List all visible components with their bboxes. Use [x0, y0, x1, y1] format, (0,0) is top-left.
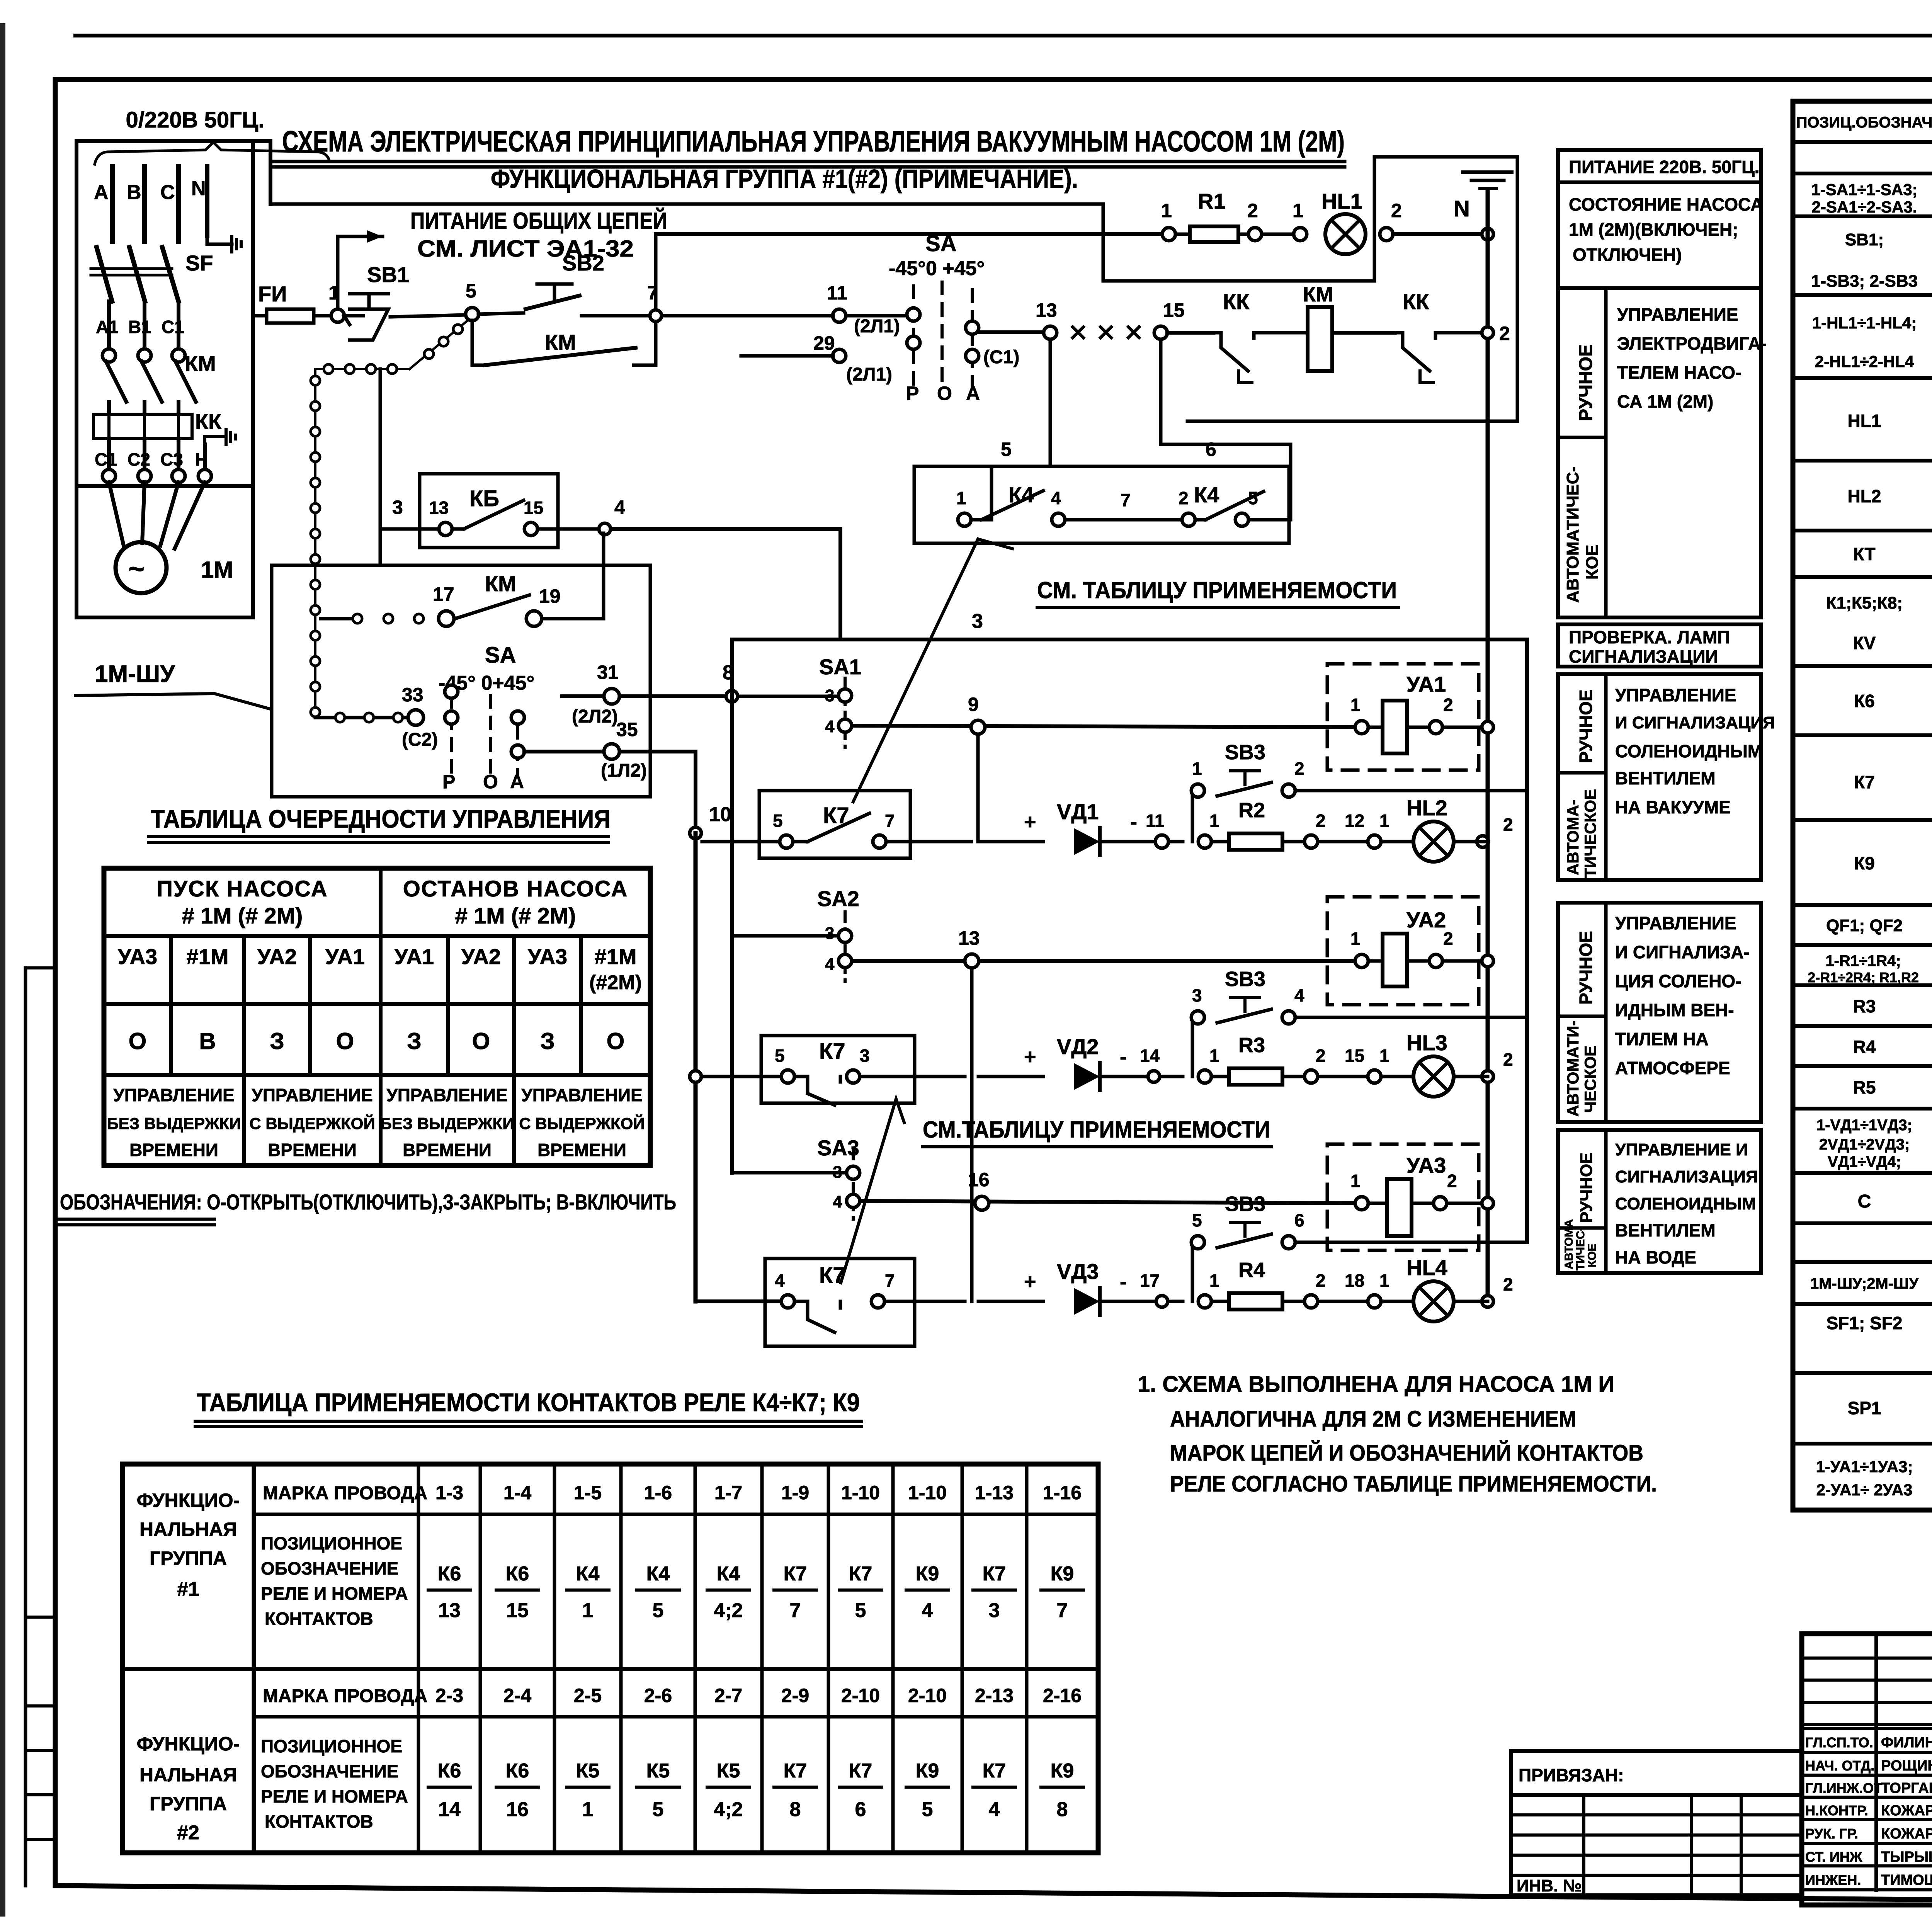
svg-text:ЧЕСКОЕ: ЧЕСКОЕ	[1581, 1046, 1599, 1113]
svg-text:1-VД1÷1VД3;: 1-VД1÷1VД3;	[1816, 1117, 1912, 1134]
svg-text:7: 7	[1057, 1599, 1068, 1622]
UA3 node 2	[1434, 1197, 1447, 1210]
svg-text:(2Л2): (2Л2)	[572, 706, 618, 727]
svg-text:4: 4	[1051, 488, 1061, 508]
svg-text:2: 2	[1294, 759, 1304, 779]
svg-text:# 1М (# 2М): # 1М (# 2М)	[455, 903, 576, 929]
svg-text:-: -	[1120, 1270, 1127, 1293]
svg-text:1М: 1М	[201, 557, 233, 583]
svg-text:#1: #1	[177, 1578, 199, 1600]
svg-text:З: З	[407, 1028, 422, 1054]
svg-text:5: 5	[653, 1599, 664, 1622]
svg-text:1-R1÷1R4;: 1-R1÷1R4;	[1825, 952, 1901, 969]
svg-text:SР1: SР1	[1848, 1398, 1881, 1418]
svg-text:МАРКА ПРОВОДА: МАРКА ПРОВОДА	[263, 1483, 427, 1503]
left bus wire 10	[694, 833, 698, 1301]
SA pole A contacts	[511, 711, 524, 724]
relay contact K7 box 1	[759, 791, 910, 858]
wire SB1 to node5	[390, 315, 466, 317]
svg-text:СИГНАЛИЗАЦИИ: СИГНАЛИЗАЦИИ	[1569, 646, 1718, 667]
svg-text:МАРКА ПРОВОДА: МАРКА ПРОВОДА	[263, 1686, 427, 1706]
H terminal ground	[205, 437, 226, 444]
node 1 of HL1	[1294, 228, 1307, 241]
svg-text:К6: К6	[506, 1563, 529, 1585]
svg-text:5: 5	[466, 280, 476, 302]
svg-text:-: -	[1130, 810, 1137, 833]
svg-text:БЕЗ ВЫДЕРЖКИ: БЕЗ ВЫДЕРЖКИ	[107, 1114, 241, 1133]
svg-text:N: N	[1454, 196, 1470, 221]
node 11 row1	[1155, 835, 1168, 848]
svg-text:18: 18	[1345, 1270, 1364, 1291]
annotation box lamp test	[1558, 624, 1761, 667]
svg-text:С2: С2	[128, 449, 150, 469]
svg-text:ТИЧЕС-: ТИЧЕС-	[1574, 1227, 1587, 1270]
wire 3 right bus	[1525, 639, 1529, 1242]
svg-text:7: 7	[885, 811, 895, 831]
svg-text:УПРАВЛЕНИЕ: УПРАВЛЕНИЕ	[1615, 913, 1736, 933]
svg-text:РУЧНОЕ: РУЧНОЕ	[1577, 1153, 1596, 1223]
svg-text:1-НL1÷1-НL4;: 1-НL1÷1-НL4;	[1812, 314, 1917, 332]
svg-text:К4: К4	[646, 1563, 670, 1585]
fuse FU	[267, 309, 314, 323]
svg-text:ВРЕМЕНИ: ВРЕМЕНИ	[537, 1140, 626, 1160]
chain wire to 33	[315, 716, 410, 719]
title block outer	[1802, 1634, 1932, 1905]
svg-text:МАРОК ЦЕПЕЙ И ОБОЗНАЧЕНИЙ К: МАРОК ЦЕПЕЙ И ОБОЗНАЧЕНИЙ КОНТАКТОВ	[1170, 1440, 1643, 1466]
svg-text:# 1М (# 2М): # 1М (# 2М)	[182, 903, 303, 929]
mech linkage horizontal chain	[315, 368, 410, 370]
svg-text:2-5: 2-5	[574, 1685, 602, 1706]
svg-text:R1: R1	[1198, 189, 1226, 213]
svg-text:О: О	[937, 383, 952, 404]
svg-text:2: 2	[1247, 200, 1258, 221]
svg-text:КМ: КМ	[185, 351, 216, 376]
svg-text:КОЖАРИНОВА: КОЖАРИНОВА	[1881, 1803, 1932, 1819]
svg-text:2-НL1÷2-НL4: 2-НL1÷2-НL4	[1815, 352, 1914, 371]
svg-text:С1: С1	[162, 317, 184, 337]
svg-text:7: 7	[1121, 490, 1131, 510]
svg-text:ОБОЗНАЧЕНИЕ: ОБОЗНАЧЕНИЕ	[261, 1761, 398, 1781]
svg-text:2: 2	[1499, 323, 1510, 344]
svg-text:ВЕНТИЛЕМ: ВЕНТИЛЕМ	[1615, 768, 1716, 788]
svg-text:ТЫРЫШКИН: ТЫРЫШКИН	[1881, 1849, 1932, 1865]
svg-text:14: 14	[438, 1798, 461, 1821]
svg-text:SА: SА	[485, 643, 516, 668]
wire node8 bus to SA3	[732, 1171, 847, 1175]
svg-text:ТАБЛИЦА ОЧЕРЕДНОСТИ УПРАВЛЕН: ТАБЛИЦА ОЧЕРЕДНОСТИ УПРАВЛЕНИЯ	[151, 804, 611, 833]
svg-text:1: 1	[1350, 1171, 1361, 1191]
svg-text:(С2): (С2)	[402, 730, 438, 750]
svg-text:КК: КК	[1223, 289, 1250, 314]
svg-text:1М-ШУ: 1М-ШУ	[95, 661, 175, 687]
bus N ground lead	[207, 236, 232, 244]
svg-text:35: 35	[616, 719, 638, 740]
components table grid	[1793, 101, 1932, 1510]
wire 35	[524, 752, 696, 827]
svg-text:ОСТАНОВ НАСОСА: ОСТАНОВ НАСОСА	[403, 876, 628, 901]
svg-text:НАЛЬНАЯ: НАЛЬНАЯ	[139, 1764, 237, 1786]
svg-text:13: 13	[958, 927, 980, 949]
svg-text:2VД1÷2VД3;: 2VД1÷2VД3;	[1819, 1136, 1910, 1153]
svg-text:2-R1÷2R4; R1,R2: 2-R1÷2R4; R1,R2	[1808, 969, 1919, 985]
svg-text:~: ~	[128, 554, 145, 585]
svg-text:К4: К4	[1194, 483, 1219, 507]
wire 7 to R1	[656, 232, 1163, 236]
svg-text:1-6: 1-6	[644, 1482, 672, 1503]
svg-text:РУЧНОЕ: РУЧНОЕ	[1576, 931, 1596, 1005]
svg-text:УПРАВЛЕНИЕ: УПРАВЛЕНИЕ	[1617, 304, 1738, 325]
svg-text:ОБОЗНАЧЕНИЕ: ОБОЗНАЧЕНИЕ	[261, 1558, 398, 1578]
node 10	[690, 827, 701, 839]
title block vertical dividers left section	[1874, 1634, 1878, 1890]
svg-text:СОСТОЯНИЕ НАСОСА: СОСТОЯНИЕ НАСОСА	[1569, 194, 1763, 214]
svg-text:(2Л1): (2Л1)	[846, 364, 892, 385]
wire 10 to K7	[702, 840, 781, 844]
svg-text:1-5: 1-5	[574, 1482, 602, 1503]
UA3 node 1	[1355, 1197, 1368, 1210]
wire 6 riser from node 15	[1161, 339, 1291, 466]
annotation box water valve	[1558, 1130, 1761, 1273]
node 9	[971, 720, 985, 734]
svg-text:2: 2	[1443, 929, 1453, 949]
svg-text:КК: КК	[195, 409, 222, 434]
svg-text:0/220В 50ГЦ.: 0/220В 50ГЦ.	[126, 107, 264, 133]
svg-text:К6: К6	[1854, 691, 1875, 711]
svg-text:О: О	[483, 771, 498, 793]
svg-text:КОЕ: КОЕ	[1586, 1243, 1599, 1267]
solenoid coil UA2	[1383, 934, 1407, 986]
svg-text:ФУНКЦИО-: ФУНКЦИО-	[137, 1490, 240, 1511]
svg-text:+: +	[1024, 1270, 1036, 1293]
annotation box vacuum valve	[1558, 674, 1761, 880]
svg-text:13: 13	[438, 1599, 461, 1622]
svg-text:2-3: 2-3	[435, 1685, 463, 1706]
svg-text:2-13: 2-13	[975, 1685, 1014, 1706]
KB contact 13	[439, 522, 452, 536]
svg-text:3: 3	[1192, 985, 1202, 1005]
svg-text:2: 2	[1503, 1274, 1513, 1294]
SA pole P contacts	[445, 685, 458, 698]
svg-text:-45°0 +45°: -45°0 +45°	[889, 257, 985, 280]
svg-text:SF: SF	[185, 251, 213, 275]
svg-text:С ВЫДЕРЖКОЙ: С ВЫДЕРЖКОЙ	[519, 1114, 645, 1133]
svg-text:ВРЕМЕНИ: ВРЕМЕНИ	[129, 1140, 218, 1160]
svg-text:5: 5	[855, 1599, 866, 1622]
svg-text:С1: С1	[95, 449, 117, 469]
branch to SB3 row1	[1192, 791, 1198, 842]
node 13 of KM row	[1044, 326, 1057, 339]
SF tie bar	[91, 267, 172, 270]
svg-text:ПОЗИЦИОННОЕ: ПОЗИЦИОННОЕ	[261, 1533, 402, 1553]
ground symbol at N bus	[230, 236, 233, 252]
svg-text:УА1: УА1	[395, 944, 434, 969]
svg-text:2: 2	[1447, 1171, 1457, 1191]
svg-text:SF1; SF2: SF1; SF2	[1827, 1313, 1903, 1333]
svg-text:КОНТАКТОВ: КОНТАКТОВ	[265, 1811, 373, 1832]
svg-text:R4: R4	[1238, 1259, 1265, 1282]
svg-text:2: 2	[1503, 1049, 1513, 1070]
applicability table grid	[122, 1464, 1098, 1853]
lamp HL3	[1413, 1056, 1454, 1097]
mech linkage x marks	[1073, 327, 1083, 338]
svg-text:Н.КОНТР.: Н.КОНТР.	[1805, 1803, 1868, 1818]
svg-text:N: N	[191, 177, 206, 200]
svg-text:(2Л1): (2Л1)	[854, 316, 900, 337]
title block signature rows	[1802, 1727, 1932, 1730]
lamp HL2	[1413, 821, 1454, 862]
svg-text:К9: К9	[1051, 1760, 1074, 1782]
svg-text:СХЕМА ЭЛЕКТРИЧЕСКАЯ ПРИНЦИПИАЛ: СХЕМА ЭЛЕКТРИЧЕСКАЯ ПРИНЦИПИАЛЬНАЯ УПРАВ…	[282, 125, 1345, 158]
svg-text:О: О	[472, 1028, 490, 1054]
brace over buses	[95, 142, 329, 164]
annotation box power	[1558, 150, 1761, 182]
svg-text:К9: К9	[1854, 853, 1875, 873]
wire node1 to SB1	[344, 314, 363, 318]
svg-text:К6: К6	[506, 1760, 529, 1782]
svg-text:4: 4	[614, 497, 625, 518]
junction row3b	[1156, 1296, 1168, 1307]
node 16	[975, 1196, 989, 1210]
svg-text:10: 10	[709, 803, 731, 826]
solenoid coil UA3	[1387, 1179, 1412, 1236]
riser node13 down	[970, 968, 974, 1301]
svg-text:АНАЛОГИЧНА ДЛЯ 2М С ИЗМЕНЕН: АНАЛОГИЧНА ДЛЯ 2М С ИЗМЕНЕНИЕМ	[1170, 1406, 1576, 1432]
wire SA2 row2	[852, 959, 1356, 963]
svg-text:1-4: 1-4	[503, 1482, 531, 1503]
wire UA1 to N bus	[1442, 726, 1488, 729]
svg-text:2-10: 2-10	[841, 1685, 880, 1706]
svg-text:29: 29	[813, 332, 835, 354]
svg-text:1-SА1÷1-SА3;: 1-SА1÷1-SА3;	[1811, 180, 1917, 199]
node 1 of HL3	[1368, 1070, 1381, 1083]
svg-text:13: 13	[1036, 299, 1057, 321]
svg-text:ТОРГАШОВ: ТОРГАШОВ	[1881, 1780, 1932, 1796]
svg-text:1-13: 1-13	[975, 1482, 1014, 1503]
svg-text:ТИЛЕМ НА: ТИЛЕМ НА	[1615, 1029, 1709, 1049]
svg-text:УА3: УА3	[1406, 1153, 1446, 1177]
svg-text:4: 4	[833, 1192, 842, 1211]
svg-text:15: 15	[1163, 299, 1185, 321]
svg-text:О: О	[607, 1028, 625, 1054]
valve UA2 dashed box	[1327, 897, 1479, 1005]
svg-text:16: 16	[968, 1169, 990, 1190]
svg-text:ЦИЯ СОЛЕНО-: ЦИЯ СОЛЕНО-	[1615, 971, 1742, 991]
node 15 of KM row	[1154, 326, 1167, 339]
wire UA3 to N bus	[1447, 1202, 1488, 1205]
svg-text:ВЕНТИЛЕМ: ВЕНТИЛЕМ	[1615, 1220, 1716, 1240]
svg-text:АВТОМАТИЧЕС-: АВТОМАТИЧЕС-	[1563, 466, 1582, 603]
wire 31	[562, 694, 725, 698]
svg-text:К7: К7	[1854, 772, 1875, 792]
svg-text:1М (2М)(ВКЛЮЧЕН;: 1М (2М)(ВКЛЮЧЕН;	[1569, 219, 1738, 240]
node 2 after R1	[1248, 228, 1262, 241]
svg-text:SВ3: SВ3	[1225, 1192, 1265, 1216]
svg-text:НL1: НL1	[1848, 411, 1881, 431]
node 29	[833, 349, 846, 362]
svg-text:ГРУППА: ГРУППА	[150, 1793, 227, 1815]
vertical chain linkage	[314, 369, 316, 718]
svg-text:А: А	[966, 383, 980, 404]
SF to KM leads	[107, 301, 111, 350]
svg-text:УА1: УА1	[1406, 672, 1446, 696]
svg-text:SВ2: SВ2	[562, 251, 604, 275]
left bus junction row2b	[690, 1071, 701, 1082]
annotation box pump state	[1558, 182, 1761, 288]
svg-text:+: +	[1024, 810, 1036, 833]
svg-text:1-7: 1-7	[714, 1482, 742, 1503]
svg-text:УПРАВЛЕНИЕ И: УПРАВЛЕНИЕ И	[1615, 1140, 1748, 1159]
wire from chain to node3 and link to 35	[379, 369, 382, 565]
UA1 node 1	[1355, 721, 1368, 734]
KB contact 15	[524, 522, 537, 536]
wire SB3-3 to bus3	[1295, 1241, 1527, 1244]
left margin inner line	[24, 968, 27, 1886]
node 2 after R4	[1304, 1295, 1318, 1308]
svg-text:1: 1	[1350, 929, 1361, 949]
svg-text:ПИТАНИЕ 220В. 50ГЦ.: ПИТАНИЕ 220В. 50ГЦ.	[1569, 157, 1759, 177]
resistor R1	[1190, 226, 1238, 242]
svg-text:КТ: КТ	[1853, 544, 1875, 564]
selector SA box	[272, 565, 650, 797]
svg-text:5: 5	[1001, 439, 1012, 460]
svg-text:2-УА1÷ 2УА3: 2-УА1÷ 2УА3	[1816, 1481, 1913, 1499]
svg-text:2-10: 2-10	[908, 1685, 947, 1706]
svg-text:КК: КК	[1403, 289, 1429, 314]
thermal relay KK box	[94, 414, 192, 439]
svg-text:ФУНКЦИО-: ФУНКЦИО-	[137, 1733, 240, 1755]
node 8	[726, 690, 738, 702]
svg-text:14: 14	[1140, 1046, 1160, 1066]
wire SA1 to UA1 row	[852, 726, 1356, 727]
svg-text:К7: К7	[784, 1760, 807, 1782]
svg-text:1: 1	[1379, 1270, 1389, 1291]
svg-text:2: 2	[1443, 695, 1453, 715]
svg-text:НL2: НL2	[1848, 486, 1881, 506]
svg-text:2-6: 2-6	[644, 1685, 672, 1706]
svg-text:SА1: SА1	[819, 655, 861, 679]
svg-text:1М-ШУ;2М-ШУ: 1М-ШУ;2М-ШУ	[1810, 1275, 1919, 1292]
node 2 after HL2	[1477, 836, 1488, 847]
relay K4 contacts box	[914, 466, 1289, 543]
svg-text:ИДНЫМ ВЕН-: ИДНЫМ ВЕН-	[1615, 1000, 1734, 1020]
svg-text:К7: К7	[849, 1563, 872, 1585]
svg-text:К5: К5	[717, 1760, 740, 1782]
wire node7-node11	[662, 314, 833, 318]
svg-text:1: 1	[1209, 1046, 1219, 1066]
svg-text:К5: К5	[576, 1760, 600, 1782]
svg-text:К6: К6	[438, 1760, 461, 1782]
svg-text:VД3: VД3	[1057, 1259, 1099, 1284]
svg-text:2-SА1÷2-SА3.: 2-SА1÷2-SА3.	[1812, 198, 1917, 216]
svg-text:3: 3	[392, 497, 403, 518]
wire node8 to SA1	[738, 695, 838, 698]
svg-text:SВ3: SВ3	[1225, 968, 1265, 991]
svg-text:АТМОСФЕРЕ: АТМОСФЕРЕ	[1615, 1058, 1730, 1078]
wire 29 stub	[741, 354, 833, 358]
svg-text:ФИЛИН: ФИЛИН	[1881, 1735, 1932, 1751]
power box inner line	[77, 484, 253, 488]
svg-text:СОЛЕНОИДНЫМ: СОЛЕНОИДНЫМ	[1615, 741, 1762, 761]
SA lower pole dashes	[451, 696, 518, 777]
svg-text:6: 6	[1294, 1210, 1304, 1230]
svg-text:В: В	[127, 181, 141, 204]
node 2 after HL4	[1482, 1296, 1493, 1307]
svg-text:К9: К9	[916, 1760, 939, 1782]
svg-text:4: 4	[989, 1798, 1000, 1821]
svg-text:5: 5	[775, 1046, 785, 1066]
node 2 after R2	[1304, 835, 1318, 848]
svg-text:VД2: VД2	[1057, 1034, 1099, 1059]
node 31	[604, 689, 619, 704]
svg-text:УПРАВЛЕНИЕ: УПРАВЛЕНИЕ	[386, 1085, 508, 1105]
svg-text:-: -	[1120, 1045, 1127, 1068]
svg-text:5: 5	[773, 811, 783, 831]
svg-text:К7: К7	[983, 1760, 1006, 1782]
svg-text:РУЧНОЕ: РУЧНОЕ	[1576, 344, 1596, 421]
contactor KM aux bypass contact	[471, 320, 474, 365]
wire between K4 contacts	[1052, 513, 1065, 526]
svg-text:17: 17	[433, 583, 454, 605]
svg-text:О: О	[336, 1028, 354, 1054]
solenoid coil UA1	[1383, 701, 1407, 753]
left margin ticks	[26, 966, 55, 969]
wire 3 from node 4	[611, 529, 1527, 639]
wire SA to node13	[978, 330, 1043, 334]
svg-text:ВРЕМЕНИ: ВРЕМЕНИ	[403, 1140, 492, 1160]
svg-text:С ВЫДЕРЖКОЙ: С ВЫДЕРЖКОЙ	[249, 1114, 375, 1133]
svg-text:ТИЧЕСКОЕ: ТИЧЕСКОЕ	[1581, 789, 1599, 878]
svg-text:4: 4	[825, 955, 835, 974]
svg-text:8: 8	[1057, 1798, 1068, 1821]
title underline double	[270, 160, 1345, 163]
svg-text:1: 1	[1379, 811, 1389, 831]
svg-text:2-16: 2-16	[1043, 1685, 1082, 1706]
svg-text:1-10: 1-10	[908, 1482, 947, 1503]
lamp HL4	[1413, 1281, 1454, 1321]
node 1	[331, 309, 344, 322]
svg-text:РОЩИН: РОЩИН	[1881, 1758, 1932, 1774]
svg-text:РУК. ГР.: РУК. ГР.	[1805, 1826, 1858, 1842]
svg-text:К7: К7	[784, 1563, 807, 1585]
svg-text:3: 3	[972, 610, 983, 633]
boundary step corner	[253, 141, 270, 204]
svg-text:12: 12	[1345, 811, 1364, 831]
node 8 bus	[730, 639, 734, 1173]
svg-text:И СИГНАЛИЗА-: И СИГНАЛИЗА-	[1615, 942, 1750, 962]
node 1 before R3	[1198, 1070, 1211, 1083]
svg-text:КОНТАКТОВ: КОНТАКТОВ	[265, 1609, 373, 1629]
node 1 of HL4	[1368, 1295, 1381, 1308]
svg-text:#1М: #1М	[595, 944, 637, 969]
svg-text:ВРЕМЕНИ: ВРЕМЕНИ	[268, 1140, 357, 1160]
svg-text:З: З	[540, 1028, 555, 1054]
svg-text:4: 4	[775, 1270, 785, 1291]
node 35	[604, 744, 619, 759]
svg-text:+: +	[1024, 1045, 1036, 1068]
svg-text:15: 15	[506, 1599, 529, 1622]
svg-text:ПОЗИЦИОННОЕ: ПОЗИЦИОННОЕ	[261, 1736, 402, 1756]
svg-text:ИНЖЕН.: ИНЖЕН.	[1805, 1872, 1861, 1888]
svg-text:К9: К9	[916, 1563, 939, 1585]
node 2 after HL1	[1380, 228, 1393, 241]
branch to SB3 row2	[1192, 1017, 1198, 1077]
svg-text:А: А	[510, 771, 524, 793]
svg-text:1: 1	[1350, 695, 1361, 715]
svg-text:СТ. ИНЖ: СТ. ИНЖ	[1805, 1849, 1862, 1865]
svg-text:НL4: НL4	[1406, 1255, 1447, 1280]
svg-text:1: 1	[1192, 759, 1202, 779]
svg-text:2: 2	[1503, 815, 1513, 835]
